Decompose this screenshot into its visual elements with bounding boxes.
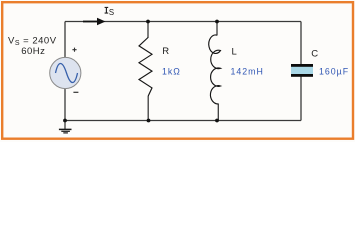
wire capacitor bottom lead [300,77,302,121]
svg-text:S: S [109,8,114,17]
svg-text:160µF: 160µF [319,67,349,77]
junction bottom L [215,119,219,123]
junction top R [146,20,150,24]
label IS [105,7,115,17]
wire bottom horizontal [65,120,301,122]
label C [311,49,318,60]
wire resistor bottom lead [147,96,149,121]
label L value 142mH [231,67,264,77]
wire source top lead [64,22,66,58]
label R value 1kΩ [162,67,181,77]
capacitor C [291,64,313,77]
svg-text:142mH: 142mH [231,67,264,77]
junction top L [215,20,219,24]
inductor L [209,35,221,104]
wire resistor top lead [147,22,149,39]
wire inductor bottom lead [217,104,219,121]
svg-text:L: L [232,46,237,57]
svg-text:60Hz: 60Hz [21,46,45,57]
wire capacitor top lead [300,22,302,65]
junction bottom R [147,119,151,123]
svg-text:1kΩ: 1kΩ [162,67,181,77]
svg-text:R: R [162,46,169,57]
wire source bottom lead [64,89,66,121]
label source value [8,36,57,57]
resistor R [139,38,152,97]
label C value 160µF [319,67,349,77]
label R [162,46,169,57]
ground [59,121,72,133]
ac source VS [50,48,81,93]
wire inductor top lead [216,22,218,36]
junction bottom source [63,119,67,123]
svg-text:C: C [311,49,318,60]
current arrow IS [83,18,106,25]
label L [232,46,237,57]
wire top horizontal [65,21,301,23]
